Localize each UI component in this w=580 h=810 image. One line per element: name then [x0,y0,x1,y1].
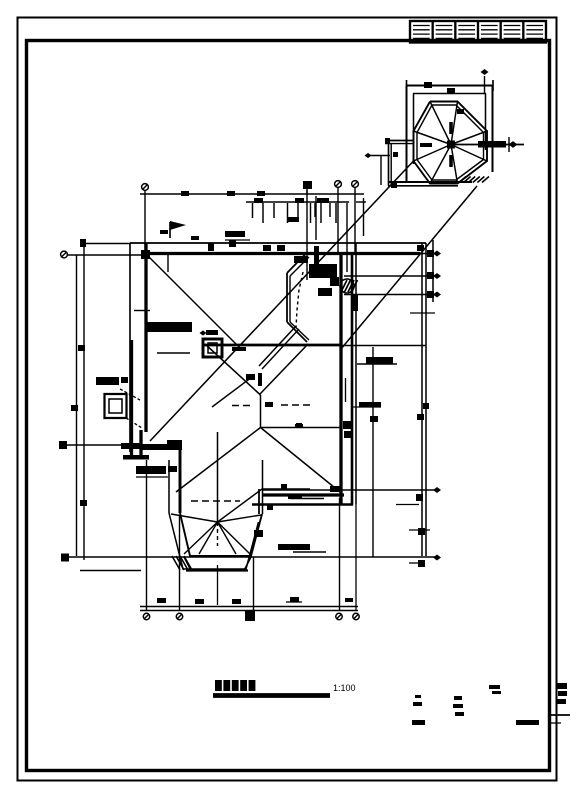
svg-text:1:100: 1:100 [333,683,356,693]
